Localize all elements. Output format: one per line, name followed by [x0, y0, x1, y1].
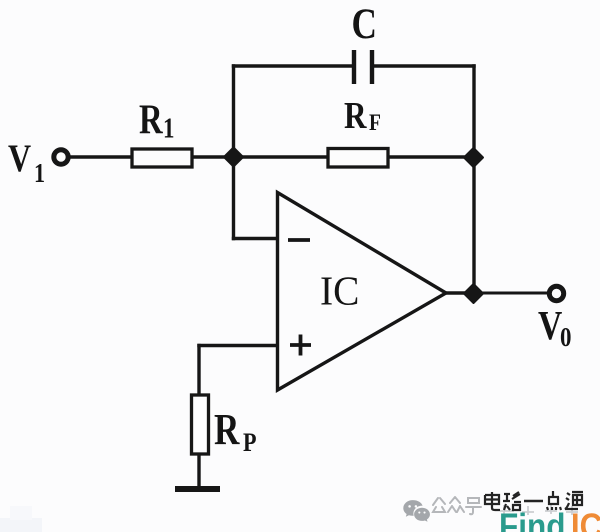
node A junction dot: [224, 148, 243, 167]
watermark dark char yi: [524, 500, 543, 503]
watermark gray text zhong: [448, 497, 464, 512]
wire top-left to capacitor: [232, 64, 352, 67]
op-amp plus sign horizontal: [290, 343, 311, 347]
watermark wechat icon: [403, 500, 430, 522]
watermark dark char tong: [565, 492, 583, 509]
wire input terminal to R1: [70, 155, 133, 158]
resistor R1 body: [132, 149, 192, 167]
svg-text:F: F: [369, 110, 381, 136]
wire node A to RF: [236, 155, 328, 158]
node C output junction dot: [464, 284, 483, 303]
svg-text:FindIC: FindIC: [499, 508, 600, 532]
svg-text:R: R: [214, 404, 241, 454]
wire R1 to node A: [192, 155, 230, 158]
wire node A up to capacitor branch: [232, 64, 235, 157]
output terminal VO circle: [549, 286, 563, 300]
svg-text:C: C: [352, 0, 377, 48]
op-amp minus sign: [288, 238, 310, 242]
svg-text:0: 0: [560, 323, 571, 352]
svg-text:IC: IC: [320, 268, 359, 314]
watermark dark char lu: [503, 492, 521, 510]
input terminal V1 circle: [54, 150, 68, 164]
watermark gray text gong: [433, 498, 445, 512]
wechat icon eyes: [408, 505, 411, 508]
svg-text:1: 1: [34, 159, 45, 189]
svg-text:V: V: [538, 304, 562, 349]
ground symbol bar: [175, 486, 220, 492]
wire top-right corner down through node B to output node: [472, 64, 475, 293]
wire capacitor to top-right corner: [374, 64, 476, 67]
wire node A down to inverting input corner: [232, 157, 235, 240]
wire RF to node B: [388, 155, 474, 158]
svg-text:P: P: [243, 429, 257, 457]
faint corner smudge bottom-left: [0, 518, 42, 532]
wire corner down to RP: [197, 344, 200, 396]
node B junction dot: [464, 148, 483, 167]
wire op-amp noninverting input to left corner: [197, 344, 277, 347]
wire RP to ground: [197, 454, 200, 488]
watermark faint gray text behind: [500, 505, 578, 515]
svg-text:R: R: [344, 94, 367, 137]
capacitor C left plate: [352, 50, 356, 84]
svg-text:R: R: [139, 97, 163, 144]
watermark gray text hao: [466, 498, 481, 514]
wire op-amp output to node C: [446, 291, 470, 294]
svg-text:V: V: [8, 136, 31, 180]
resistor RP body: [192, 395, 209, 454]
op-amp U1 triangle: [278, 193, 447, 391]
wire corner to op-amp inverting input: [232, 237, 278, 240]
wire node C to output terminal: [476, 292, 548, 295]
watermark dark char dian: [485, 492, 500, 510]
resistor RF body: [328, 149, 388, 168]
watermark dark char dian2: [547, 491, 561, 510]
op-amp plus sign vertical: [299, 335, 303, 356]
capacitor C right plate: [370, 50, 374, 84]
svg-text:1: 1: [163, 112, 174, 144]
